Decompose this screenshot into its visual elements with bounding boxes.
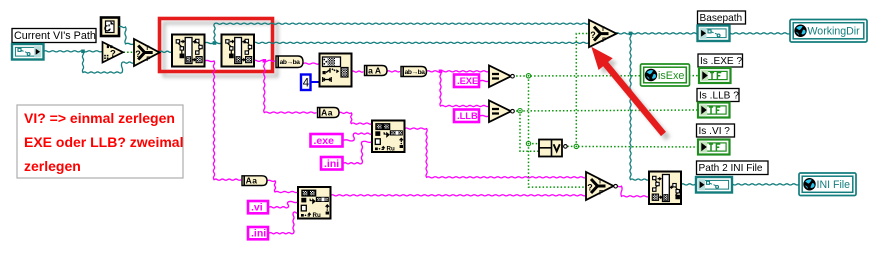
svg-text:?: ?: [587, 183, 593, 193]
search and replace string function Search Replace 2: [298, 187, 331, 219]
wire string Strip1 name out: [205, 60, 242, 180]
wire string branch to Equal2: [440, 71, 489, 106]
wire path bypass to Select false input: [82, 51, 134, 73]
svg-text:Is .LLB ?: Is .LLB ?: [699, 90, 739, 101]
string constant .EXE: [454, 75, 479, 88]
compound OR node: [539, 140, 562, 157]
wire string To Upper to Reverse2: [387, 71, 400, 72]
wire boolean Equal2 to Is .LLB ?: [513, 110, 699, 111]
path indicator Path 2 INI File: [696, 177, 732, 193]
svg-text:ab→ba: ab→ba: [280, 59, 301, 66]
wire string .EXE to Equal1: [480, 80, 489, 81]
string constant .LLB: [454, 110, 479, 123]
wire boolean up to Select3 selector: [576, 34, 589, 147]
svg-text:.LLB: .LLB: [457, 111, 478, 121]
select function Select3: [589, 20, 617, 47]
strip path function Strip Path 1: [172, 35, 205, 67]
svg-text:?: ?: [135, 49, 141, 59]
red annotation arrow: [591, 47, 666, 136]
label Is .LLB ?: [697, 89, 739, 102]
svg-text:INI File: INI File: [817, 179, 851, 191]
wire path branch up to top rail: [214, 23, 589, 43]
function To Upper Case: [365, 66, 388, 76]
function Reverse String 1: [276, 56, 303, 68]
function To Lower Case 2: [242, 176, 267, 186]
path indicator Basepath: [698, 26, 730, 42]
wire boolean Equal1 to isExe and Is .EXE ?: [513, 75, 700, 77]
label Path 2 INI File: [697, 161, 769, 175]
junction junction basepath rail: [629, 32, 633, 36]
svg-text:Path 2 INI File: Path 2 INI File: [699, 163, 763, 174]
wire boolean down to Select2 selector: [529, 144, 587, 188]
svg-text:Is .EXE ?: Is .EXE ?: [700, 56, 742, 67]
wire boolean Empty? to Select1 selector: [124, 51, 135, 53]
path control Current VI's Path: [12, 44, 44, 60]
wire string .vi to Search2: [269, 201, 298, 207]
svg-text:VI? => einmal zerlegen: VI? => einmal zerlegen: [24, 110, 175, 126]
string constant .ini 1: [321, 157, 343, 170]
wire path Build Path to INI File: [681, 184, 799, 185]
wire string branch down to To Upper Case 1: [264, 61, 317, 113]
empty string/path? function: [103, 42, 124, 63]
red highlight rectangle: [160, 19, 273, 72]
wire boolean down from Equal2 junction to OR: [520, 111, 539, 152]
wire string Subset to To Upper Case: [352, 71, 364, 72]
equal? function Equal2: [489, 101, 511, 123]
wire numeric 4 to String Subset: [311, 81, 320, 83]
wire path Strip1 to Strip2: [205, 42, 222, 43]
svg-text:zerlegen: zerlegen: [24, 158, 81, 174]
equal? function Equal1: [489, 66, 511, 88]
svg-text:?: ?: [590, 30, 596, 40]
junction boolean junction Equal2: [518, 109, 522, 113]
svg-text:?: ?: [110, 49, 116, 60]
string constant .vi: [248, 201, 268, 214]
current VI's path function icon: [101, 18, 119, 37]
global variable INI File: [799, 173, 856, 196]
wire path Select1 to Strip Path 1: [160, 51, 172, 52]
svg-text:.EXE: .EXE: [457, 76, 478, 86]
svg-text:.vi: .vi: [251, 202, 263, 214]
wire path down to Build Path: [630, 33, 649, 180]
wire string .ini2 to Search2: [269, 212, 298, 234]
wire string Reverse2 to Equal1: [427, 71, 489, 72]
build path function Build Path: [649, 172, 681, 205]
strip path function Strip Path 2: [222, 35, 255, 67]
junction boolean junction OR-out: [574, 144, 578, 148]
string constant .ini 2: [248, 227, 268, 240]
wire string Select2 to Build Path: [614, 186, 649, 197]
comment box: [17, 105, 183, 178]
wire string .ini to Search1: [344, 141, 373, 164]
svg-text:Current VI's Path: Current VI's Path: [14, 30, 96, 42]
wire string LowerCase2 to Search2: [267, 180, 298, 192]
boolean indicator Is .VI ? terminal: [698, 140, 730, 155]
boolean indicator Is .EXE ? terminal: [699, 68, 731, 83]
junction boolean junction Equal1-OR: [526, 141, 530, 145]
svg-text:Ru: Ru: [387, 146, 395, 153]
svg-text:ab→ba: ab→ba: [405, 69, 426, 76]
function To Upper Case 2: [318, 108, 340, 118]
svg-text:Ru: Ru: [313, 212, 321, 219]
wire string .LLB to Equal2: [480, 115, 489, 116]
wire path Strip2 to Select3 false input: [254, 42, 589, 43]
select function Select2: [586, 172, 614, 200]
boolean indicator Is .LLB ? terminal: [698, 103, 730, 118]
svg-text:Basepath: Basepath: [700, 13, 743, 24]
numeric constant 4: [301, 75, 311, 91]
label Is .EXE ?: [698, 54, 743, 67]
svg-text:WorkingDir: WorkingDir: [808, 26, 861, 38]
output nub Equal1 out: [511, 74, 515, 78]
svg-text:.ini: .ini: [324, 158, 339, 170]
svg-text:a A: a A: [368, 66, 381, 76]
wire string Search2 to Select2 false: [331, 195, 587, 196]
wire boolean vertical from Equal1 junction: [528, 76, 530, 144]
wire string Reverse1 to String Subset: [303, 63, 319, 64]
output nub Select2 output: [614, 184, 618, 188]
wire string .exe to Search1: [344, 133, 372, 141]
junction string junction C: [439, 70, 443, 74]
svg-text:T: T: [145, 45, 149, 52]
svg-text:Aa: Aa: [246, 176, 258, 186]
select function Select1: [134, 39, 160, 66]
svg-text:T: T: [598, 179, 602, 186]
svg-text:isExe: isExe: [658, 70, 684, 82]
junction boolean junction Equal1: [526, 74, 530, 78]
svg-text:Aa: Aa: [321, 108, 333, 118]
wire string Search1 to Select2 true: [405, 128, 587, 178]
wire path from Current VI's Path to Select true input: [119, 26, 134, 44]
svg-text:.exe: .exe: [314, 135, 335, 147]
function Reverse String 2: [401, 67, 427, 77]
svg-text:F: F: [602, 37, 606, 44]
junction string junction B: [263, 59, 267, 63]
string subset function String Subset: [320, 54, 352, 87]
label Is .VI ?: [697, 124, 735, 137]
wire string UpperCase1 to Search1: [339, 112, 372, 124]
string constant .exe: [311, 134, 343, 147]
svg-text:F: F: [146, 56, 150, 63]
global variable isExe: [641, 64, 690, 86]
junction junction on Strip1 output: [213, 41, 217, 45]
wire boolean OR output to junction: [567, 145, 698, 148]
junction path wire junction A: [81, 50, 85, 54]
output nub OR output: [564, 145, 568, 149]
output nub Equal2 out: [511, 109, 515, 113]
svg-text:F: F: [599, 190, 603, 197]
svg-text:.ini: .ini: [251, 228, 266, 240]
wire boolean into OR top input: [529, 143, 540, 145]
label Basepath: [698, 11, 746, 24]
svg-text:T: T: [601, 26, 605, 33]
search and replace string function Search Replace 1: [372, 121, 405, 153]
label Current VI's Path: [12, 29, 96, 43]
svg-text:4: 4: [303, 78, 310, 90]
svg-text:Is .VI ?: Is .VI ?: [699, 126, 731, 137]
wire path from control to Empty String/Path?: [44, 51, 103, 52]
wire string Strip2 name out: [254, 60, 275, 61]
svg-text:EXE oder LLB? zweimal: EXE oder LLB? zweimal: [24, 134, 183, 150]
wire path Select3 output rail to WorkingDir: [616, 33, 790, 34]
global variable WorkingDir: [790, 20, 867, 43]
